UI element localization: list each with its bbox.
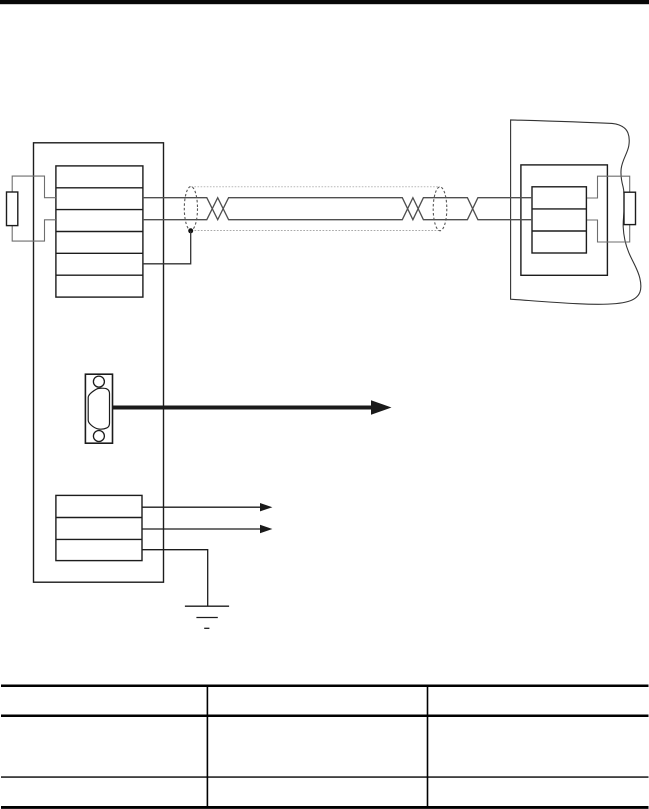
enclosure (left device outline) — [34, 143, 164, 582]
wire (FG to ground) — [142, 550, 208, 607]
junction (shield drain tap) — [188, 228, 193, 233]
terminal block TB2 (right, 3 rows) — [532, 187, 586, 253]
wire (shield drain to TB1) — [143, 231, 191, 264]
signal arrow 1 — [142, 503, 272, 511]
wire (R2 upper lead bracket) — [586, 176, 629, 198]
wire (cable conductor B with twists) — [143, 198, 532, 220]
wire (R1 upper lead bracket) — [12, 176, 56, 198]
ground — [185, 606, 229, 628]
wire (R1 lower lead bracket) — [12, 220, 56, 241]
thick arrow (RS-422 cable run) — [113, 400, 392, 415]
table — [1, 685, 649, 808]
wire (R2 lower lead bracket) — [586, 220, 629, 242]
mating device (torn edge sheet) — [511, 120, 641, 304]
D-sub connector CN1 — [85, 374, 112, 443]
resistor R1 (terminating resistor left) — [7, 192, 18, 226]
wire (cable conductor A with twists) — [143, 198, 532, 220]
terminal block TB3 (lower, 3 rows) — [56, 495, 142, 560]
cable shield (dashed outline) — [184, 187, 447, 231]
connector P2 (right connector body) — [521, 165, 608, 275]
header rule — [0, 0, 649, 4]
resistor R2 (terminating resistor right) — [624, 192, 636, 224]
terminal block TB1 (left, 6 rows) — [56, 166, 143, 297]
signal arrow 2 — [142, 525, 272, 533]
